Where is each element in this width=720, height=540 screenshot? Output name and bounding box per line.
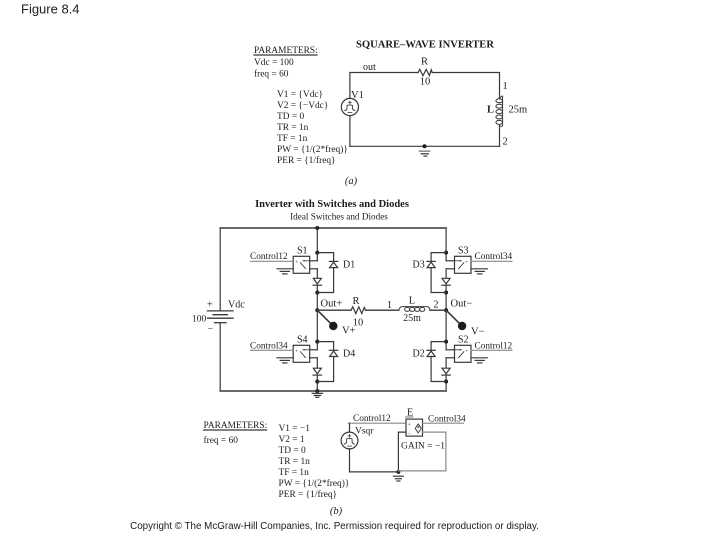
svg-text:R: R (421, 57, 428, 68)
ground (a) (419, 144, 430, 156)
wire S2 to series diode (445, 358, 447, 368)
wire S3 to series diode (445, 269, 447, 279)
wire D3 branch (431, 253, 446, 262)
wire control S3 (471, 260, 512, 262)
wire (a) bottom (350, 145, 500, 147)
inductor L (b) (399, 307, 430, 311)
wire D2 branch (431, 342, 446, 351)
wire right leg middle (445, 310, 447, 350)
wire (a) right (499, 73, 501, 99)
diode (series with S3) (442, 278, 450, 285)
svg-text:+: + (465, 348, 468, 354)
wire Vsqr top stub (349, 423, 351, 432)
wire right leg top (445, 228, 447, 261)
wire (a) left lower (349, 116, 351, 147)
svg-text:freq = 60: freq = 60 (204, 435, 239, 446)
svg-text:1: 1 (387, 300, 392, 311)
svg-text:L: L (487, 105, 494, 116)
svg-text:out: out (363, 62, 376, 73)
wire control S2 (471, 349, 512, 351)
junction dot top (315, 226, 319, 230)
wire E output return (398, 432, 446, 471)
svg-text:S2: S2 (458, 335, 469, 346)
svg-text:V1 = −1: V1 = −1 (279, 424, 311, 434)
svg-text:Ideal Switches and Diodes: Ideal Switches and Diodes (290, 212, 388, 222)
junction dot D3 bottom (444, 291, 448, 295)
svg-text:Vdc = 100: Vdc = 100 (254, 58, 294, 68)
junction dot bottom (315, 389, 319, 393)
resistor R (b) (351, 307, 366, 314)
svg-text:TD = 0: TD = 0 (279, 446, 306, 456)
svg-text:+: + (295, 259, 298, 265)
diode (series with S1) (313, 278, 321, 285)
svg-text:V2 = {−Vdc}: V2 = {−Vdc} (277, 101, 328, 111)
wire D4 lower (317, 357, 333, 382)
underline of E (406, 416, 414, 418)
wire E minus input (398, 432, 406, 472)
node Out+ (315, 308, 319, 312)
svg-text:(b): (b) (330, 506, 343, 517)
ground (control) (393, 476, 403, 481)
ground (S3 control) (471, 269, 488, 274)
svg-text:TR = 1n: TR = 1n (279, 457, 311, 467)
diode D2 (427, 350, 435, 356)
wire control bottom (350, 471, 399, 473)
diode (series with S2) (442, 368, 450, 375)
svg-text:2: 2 (503, 137, 508, 148)
svg-text:V2 = 1: V2 = 1 (279, 435, 305, 445)
diode D4 (329, 350, 337, 356)
svg-text:PER = {1/freq}: PER = {1/freq} (277, 155, 336, 166)
vcvs E box (406, 419, 423, 437)
parameters block (b) (204, 421, 268, 446)
svg-text:TF = 1n: TF = 1n (279, 468, 310, 478)
ground (S4 control) (277, 358, 293, 363)
junction dot S3 top (444, 251, 448, 255)
wire series diode S1 to node (316, 285, 318, 310)
source parameter list (b) (279, 424, 350, 500)
svg-text:−: − (208, 324, 214, 335)
svg-text:10: 10 (420, 77, 431, 88)
svg-text:TD = 0: TD = 0 (277, 112, 304, 122)
svg-text:R: R (352, 296, 359, 307)
svg-text:D2: D2 (413, 349, 425, 360)
diode D3 (427, 261, 435, 267)
svg-text:2: 2 (434, 300, 439, 311)
ground (S1 control) (277, 269, 293, 274)
svg-text:V1: V1 (351, 90, 364, 101)
wire E output (423, 422, 464, 424)
svg-text:Control34: Control34 (475, 252, 513, 262)
wire D3 lower (431, 268, 446, 293)
svg-text:V1 = {Vdc}: V1 = {Vdc} (277, 90, 323, 100)
svg-text:+: + (465, 259, 468, 265)
svg-text:10: 10 (353, 318, 364, 329)
wire R to L (366, 309, 399, 311)
wire control S1 (251, 260, 294, 262)
svg-text:100: 100 (192, 315, 207, 325)
node Out- (444, 308, 448, 312)
svg-text:TF = 1n: TF = 1n (277, 134, 308, 144)
junction dot D4 bottom (315, 380, 319, 384)
parameters block (a) (254, 46, 318, 80)
wire (b) top rail (220, 227, 446, 229)
ground (S2 control) (471, 358, 488, 363)
wire left leg top (316, 228, 318, 261)
wire Out+ to R (317, 309, 351, 311)
svg-text:S1: S1 (297, 246, 308, 257)
wire control S4 (251, 349, 294, 351)
inductor L (a) (496, 96, 503, 126)
ground (b) bottom (312, 391, 322, 397)
junction dot D2 bottom (444, 380, 448, 384)
wire Vsqr bottom stub (349, 449, 351, 472)
wire S1 to series diode (316, 269, 318, 279)
svg-text:Figure 8.4: Figure 8.4 (21, 2, 80, 17)
wire series diode S3 to node (445, 285, 447, 310)
junction dot S4 top (315, 340, 319, 344)
svg-text:Out−: Out− (451, 299, 473, 310)
svg-text:GAIN = −1: GAIN = −1 (401, 442, 445, 452)
junction dot D1 bottom (315, 291, 319, 295)
junction dot S2 top (444, 340, 448, 344)
svg-text:V−: V− (471, 327, 485, 338)
diode (series with S4) (313, 368, 321, 375)
svg-text:Copyright © The McGraw-Hill Co: Copyright © The McGraw-Hill Companies, I… (130, 521, 539, 532)
wire left leg middle (316, 310, 318, 350)
switch S4 (293, 345, 317, 362)
wire series diode S2 to bottom (445, 375, 447, 391)
svg-text:freq = 60: freq = 60 (254, 69, 289, 80)
junction dot control ground (396, 470, 400, 474)
svg-text:PW = {1/(2*freq)}: PW = {1/(2*freq)} (277, 144, 348, 155)
svg-text:SQUARE–WAVE INVERTER: SQUARE–WAVE INVERTER (356, 40, 494, 51)
svg-text:+: + (295, 348, 298, 354)
wire battery leg upper (219, 228, 221, 311)
diode D1 (329, 261, 337, 267)
battery Vdc (208, 311, 234, 323)
wire D4 branch (317, 342, 333, 351)
wire (b) bottom rail (220, 390, 446, 392)
svg-text:Out+: Out+ (321, 299, 343, 310)
marker V+ (317, 310, 337, 330)
switch S2 (446, 345, 471, 362)
wire D2 lower (431, 357, 446, 382)
svg-text:25m: 25m (403, 313, 421, 324)
svg-text:Control12: Control12 (353, 414, 391, 424)
underline of PARAMETERS (b) (204, 429, 267, 431)
wire D1 branch (317, 253, 333, 262)
svg-text:25m: 25m (509, 105, 528, 116)
switch S1 (293, 256, 317, 273)
svg-text:L: L (409, 296, 415, 307)
source parameter list (a) (277, 90, 348, 166)
svg-text:PER = {1/freq}: PER = {1/freq} (279, 489, 338, 500)
svg-text:PW = {1/(2*freq)}: PW = {1/(2*freq)} (279, 478, 350, 489)
svg-text:D3: D3 (413, 260, 425, 271)
wire battery leg lower (219, 323, 221, 391)
svg-text:(a): (a) (345, 176, 358, 187)
wire D1 lower (317, 268, 333, 293)
svg-text:Inverter with Switches and Dio: Inverter with Switches and Diodes (255, 199, 409, 210)
switch S3 (446, 256, 471, 273)
source Vsqr (341, 432, 358, 449)
svg-text:1: 1 (503, 81, 508, 92)
wire S4 to series diode (316, 358, 318, 368)
svg-text:D4: D4 (343, 349, 355, 360)
svg-text:TR = 1n: TR = 1n (277, 123, 309, 133)
resistor R (a) (418, 69, 500, 75)
svg-text:Vdc: Vdc (228, 300, 245, 311)
wire Control12 to E (348, 422, 406, 424)
svg-text:S4: S4 (297, 335, 308, 346)
svg-text:Control12: Control12 (250, 252, 288, 262)
svg-text:S3: S3 (458, 246, 469, 257)
svg-text:D1: D1 (343, 260, 355, 271)
wire (a) top (350, 73, 418, 99)
voltage source V1 (341, 98, 358, 115)
junction dot S1 top (315, 251, 319, 255)
svg-text:Vsqr: Vsqr (355, 427, 374, 437)
svg-text:+: + (207, 300, 213, 311)
wire L to Out- (430, 309, 446, 311)
marker V- (446, 310, 466, 330)
underline of PARAMETERS (a) (254, 54, 317, 56)
wire series diode S4 to bottom (316, 375, 318, 391)
